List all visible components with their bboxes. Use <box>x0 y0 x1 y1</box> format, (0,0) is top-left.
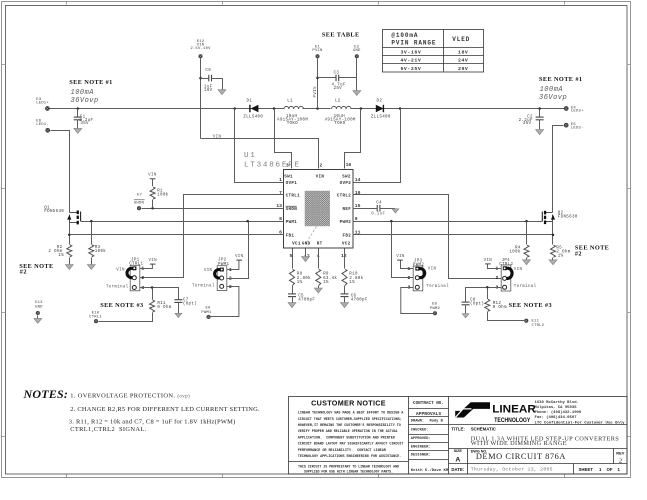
ground C4 <box>392 209 399 213</box>
svg-text:NOTES:: NOTES: <box>23 387 69 401</box>
svg-text:SHEET: SHEET <box>579 467 594 472</box>
svg-text:LED1+: LED1+ <box>36 101 49 105</box>
svg-text:TECHNOLOGY: TECHNOLOGY <box>494 417 530 424</box>
svg-text:PWM2: PWM2 <box>413 264 424 268</box>
svg-text:100k: 100k <box>157 192 168 197</box>
resistor R9 <box>316 269 338 285</box>
svg-text:PVIN: PVIN <box>314 86 318 97</box>
svg-text:C4: C4 <box>376 202 382 206</box>
terminal E13 GND <box>35 301 43 319</box>
svg-text:CTRL2: CTRL2 <box>337 194 352 199</box>
capacitor C6 <box>341 294 368 303</box>
wire Q1 source down <box>69 223 71 245</box>
svg-text:HOWEVER,IT REMAINS THE CUSTOME: HOWEVER,IT REMAINS THE CUSTOMER'S RESPON… <box>298 423 402 428</box>
U1 SHDN overline <box>286 205 297 207</box>
svg-text:OVP1: OVP1 <box>286 181 298 186</box>
svg-text:2.80k: 2.80k <box>297 276 311 281</box>
wire JP2 pin3 to E9 <box>211 287 239 317</box>
svg-text:CHECKED:: CHECKED: <box>411 429 429 433</box>
svg-text:PWM2: PWM2 <box>340 220 352 225</box>
svg-text:E7: E7 <box>137 193 143 197</box>
ground C7 <box>175 313 182 317</box>
svg-text:SHDN: SHDN <box>134 201 145 205</box>
svg-text:TECHNOLOGY APPLICATIONS ENGINE: TECHNOLOGY APPLICATIONS ENGINEERING FOR … <box>298 455 402 459</box>
diode D2 ZLLS400 <box>371 99 391 119</box>
svg-text:SEE TABLE: SEE TABLE <box>322 32 360 39</box>
svg-text:D2: D2 <box>377 99 383 103</box>
svg-text:Terminal: Terminal <box>426 284 449 289</box>
svg-text:100k: 100k <box>95 249 106 254</box>
U1 pin numbers <box>276 162 360 260</box>
svg-text:35V: 35V <box>523 122 532 126</box>
capacitor C2 <box>519 109 544 130</box>
svg-text:29V: 29V <box>458 66 468 72</box>
resistor R2 <box>48 245 71 258</box>
wire R4 to ground <box>526 258 528 260</box>
svg-text:L1: L1 <box>287 100 293 104</box>
svg-text:ZLLS400: ZLLS400 <box>371 116 391 120</box>
resistor R12 <box>485 288 507 312</box>
svg-text:E8: E8 <box>432 302 438 306</box>
svg-text:100mA: 100mA <box>71 89 95 97</box>
svg-text:PWM2: PWM2 <box>430 307 441 311</box>
svg-text:LT3486EFE: LT3486EFE <box>244 162 301 170</box>
ground E2 <box>353 91 361 96</box>
svg-text:FDN5630: FDN5630 <box>558 215 578 219</box>
svg-text:3. R11, R12 = 10k and C7, C8 =: 3. R11, R12 = 10k and C7, C8 = 1uF for 1… <box>69 419 236 426</box>
wire JP2 pin2 riser <box>227 222 249 279</box>
svg-text:36Vovp: 36Vovp <box>539 94 567 102</box>
table VLED box <box>383 30 484 73</box>
svg-text:SUPPLIED FOR USE WITH LINEAR T: SUPPLIED FOR USE WITH LINEAR TECHNOLOGY … <box>304 471 393 475</box>
svg-text:OF: OF <box>607 467 613 472</box>
wire SW2 riser <box>345 109 361 169</box>
svg-text:CUSTOMER NOTICE: CUSTOMER NOTICE <box>311 399 386 408</box>
svg-text:VIN: VIN <box>204 269 213 273</box>
ground R3 <box>87 265 95 270</box>
svg-text:1: 1 <box>279 177 282 183</box>
node junction C3 left <box>316 77 319 80</box>
transistor Q1 FDN5630 <box>44 206 80 224</box>
svg-text:REF: REF <box>343 207 352 212</box>
svg-text:PWM1: PWM1 <box>286 220 298 225</box>
terminal E10 CTRL1 <box>89 311 102 323</box>
wire E2 down <box>356 59 358 91</box>
capacitor C1 <box>74 109 94 129</box>
wire R4 from PWM2 <box>526 222 528 245</box>
svg-text:Thursday, October 13, 2005: Thursday, October 13, 2005 <box>471 467 553 473</box>
wire JP1 pin1 to VIN flag <box>140 265 153 269</box>
svg-text:CTRL2: CTRL2 <box>532 324 545 328</box>
svg-text:GND: GND <box>35 306 43 310</box>
svg-text:1%: 1% <box>297 281 303 285</box>
customer notice body <box>298 412 404 475</box>
wire FB2 <box>353 234 553 236</box>
svg-text:VERIFY PROPER AND RELIABLE OPE: VERIFY PROPER AND RELIABLE OPERATION IN … <box>298 430 399 434</box>
capacitor C7 <box>174 298 197 313</box>
resistor R10 <box>342 269 364 285</box>
wire JP3 pin1 to VIN flag <box>401 261 414 269</box>
wire RT stub <box>318 249 320 269</box>
terminal E1 PVIN <box>312 46 323 59</box>
capacitor C8 <box>462 299 485 314</box>
svg-text:SW1: SW1 <box>284 174 293 179</box>
svg-text:PVIN: PVIN <box>312 49 323 53</box>
node junction SW1-bus <box>273 107 276 110</box>
wire E6 to Q1 drain <box>51 131 70 213</box>
node junction SW2-bus <box>360 107 363 110</box>
svg-text:CTRL2: CTRL2 <box>499 263 513 267</box>
wire JP3 pin2 riser <box>392 222 414 278</box>
svg-text:@100mA: @100mA <box>391 32 418 39</box>
resistor R11 <box>150 288 172 313</box>
node junction OVP1-bus <box>233 107 236 110</box>
wire JP2 pin1 to VIN flag <box>227 261 239 270</box>
svg-text:63.4k: 63.4k <box>323 276 337 281</box>
svg-text:Terminal: Terminal <box>192 283 215 288</box>
svg-text:SEE NOTE #3: SEE NOTE #3 <box>100 302 143 309</box>
wire VIN rail to pin2 <box>201 139 319 169</box>
svg-text:JP2: JP2 <box>218 258 227 262</box>
svg-text:VIN: VIN <box>116 269 125 273</box>
svg-text:GND: GND <box>302 242 311 247</box>
svg-text:TOKO: TOKO <box>334 122 345 126</box>
node junction R12-JP4 <box>486 286 489 289</box>
svg-text:DESIGNER:: DESIGNER: <box>411 454 431 458</box>
svg-text:Milpitas, CA 95035: Milpitas, CA 95035 <box>535 405 578 410</box>
svg-text:16V: 16V <box>204 89 213 93</box>
svg-text:RT: RT <box>317 242 323 247</box>
svg-text:GND: GND <box>353 49 361 53</box>
node junction FB2-Q2 <box>552 234 555 237</box>
node junction C1-bus <box>77 107 80 110</box>
terminal E2 GND <box>353 46 361 59</box>
LT logo <box>455 404 536 424</box>
svg-text:Rudy B: Rudy B <box>430 419 444 424</box>
svg-text:LINEAR: LINEAR <box>492 404 536 416</box>
wire VC2 stub <box>344 249 346 269</box>
capacitor C4 <box>371 202 395 217</box>
ground C8 <box>462 314 469 318</box>
inductor L2 <box>325 100 356 127</box>
U1 pad dashed tie to GND <box>306 227 316 243</box>
transistor Q2 FDN5630 <box>542 211 577 224</box>
terminal E4 LED2+ <box>564 106 584 114</box>
U1 pin names left <box>286 181 301 238</box>
power flag VIN JP2 <box>235 255 244 260</box>
wire R5 to ground <box>552 258 554 260</box>
svg-text:VIN: VIN <box>148 259 157 263</box>
svg-text:Keith S./Dave KM: Keith S./Dave KM <box>411 468 449 473</box>
wire E5 to Q2 drain <box>553 126 564 213</box>
wire OVP1 riser <box>235 109 284 183</box>
svg-text:CIRCUIT THAT MEETS CUSTOMER-SU: CIRCUIT THAT MEETS CUSTOMER-SUPPLIED SPE… <box>298 418 402 422</box>
wire R11 to E10 <box>99 313 153 322</box>
svg-text:36Vovp: 36Vovp <box>71 97 99 105</box>
svg-text:24V: 24V <box>458 58 468 64</box>
terminal E3 LED1+ <box>36 98 50 111</box>
svg-text:VIN: VIN <box>316 174 325 179</box>
power flag VIN R1 <box>148 173 157 178</box>
ground C6 <box>341 303 349 308</box>
svg-text:1: 1 <box>618 467 621 472</box>
svg-text:C9: C9 <box>205 69 211 73</box>
svg-text:PERFORMANCE OR RELIABILITY. C: PERFORMANCE OR RELIABILITY. CONTACT LINE… <box>298 449 387 453</box>
svg-text:0 Ohm: 0 Ohm <box>493 305 507 310</box>
ground R2 <box>65 265 73 270</box>
table text <box>391 32 470 72</box>
ground R9 <box>314 288 322 293</box>
wire JP3 pin3 to E8 <box>401 288 433 314</box>
svg-text:E10: E10 <box>92 311 100 315</box>
svg-text:2: 2 <box>320 163 323 169</box>
svg-text:SEE NOTE #1: SEE NOTE #1 <box>539 76 582 83</box>
ground C9 <box>218 90 226 95</box>
resistor R5 <box>551 245 571 258</box>
svg-text:1630 McCarthy Blvd.: 1630 McCarthy Blvd. <box>535 400 579 405</box>
node junction JP2-PWM1 <box>246 220 249 223</box>
jumper JP4 CTRL2 <box>495 259 536 291</box>
diode D1 ZLLS400 <box>243 99 263 119</box>
wire R9 to ground <box>318 286 320 289</box>
svg-text:DATE:: DATE: <box>451 467 464 472</box>
svg-text:D1: D1 <box>247 99 253 103</box>
svg-text:VIN: VIN <box>396 255 405 259</box>
ground C1 <box>74 128 82 133</box>
U1 pin names top <box>284 174 351 179</box>
svg-text:SCHEMATIC: SCHEMATIC <box>471 427 496 432</box>
wire JP1 pin3 <box>140 288 179 300</box>
svg-text:(Opt): (Opt) <box>183 301 197 306</box>
svg-text:VIN: VIN <box>514 268 523 272</box>
node junction C2-bus <box>538 107 541 110</box>
wire E1 to bus <box>317 59 319 109</box>
svg-text:DEMO CIRCUIT 876A: DEMO CIRCUIT 876A <box>476 452 566 461</box>
svg-text:SEE NOTE #1: SEE NOTE #1 <box>69 79 112 86</box>
node junction R4-PWM2 <box>525 220 528 223</box>
svg-text:E11: E11 <box>532 320 540 324</box>
wire GND pin stub <box>305 249 307 257</box>
wire VC1 stub <box>292 249 294 269</box>
svg-text:2.5V-10V: 2.5V-10V <box>190 47 211 51</box>
svg-text:Phone: (408)432-1900: Phone: (408)432-1900 <box>535 410 582 415</box>
svg-text:APPROVALS: APPROVALS <box>416 411 442 417</box>
wire REF to C4 <box>353 208 377 210</box>
svg-text:100mA: 100mA <box>540 86 564 94</box>
LTC address block <box>535 400 626 426</box>
svg-text:35V: 35V <box>80 122 89 126</box>
svg-text:#2: #2 <box>575 250 582 257</box>
node junction FB1-Q1 <box>68 233 71 236</box>
jumper JP3 PWM2 <box>407 259 449 290</box>
ground U1 GND <box>302 257 310 262</box>
svg-text:1%: 1% <box>323 281 329 285</box>
svg-text:CIRCUIT BOARD LAYOUT MAY SIGNI: CIRCUIT BOARD LAYOUT MAY SIGNIFICANTLY A… <box>298 443 404 447</box>
U1 pin names right <box>337 181 352 238</box>
wire Q2 source down <box>552 222 554 245</box>
svg-text:2: 2 <box>495 275 498 281</box>
svg-text:14: 14 <box>355 177 361 183</box>
wire PWM1 <box>81 221 284 223</box>
wire R12 to E11 <box>488 312 525 321</box>
wire E12 to VIN rail <box>200 59 202 139</box>
svg-text:18V: 18V <box>458 49 468 55</box>
svg-text:4700pF: 4700pF <box>298 299 315 303</box>
svg-text:VIN: VIN <box>148 173 157 177</box>
title block outline <box>289 397 628 475</box>
ground C2 <box>536 130 544 135</box>
svg-text:E13: E13 <box>35 301 43 305</box>
svg-text:1. OVERVOLTAGE PROTECTION. (ov: 1. OVERVOLTAGE PROTECTION. (ovp) <box>70 392 190 399</box>
svg-text:1: 1 <box>599 467 602 472</box>
jumper JP2 PWM1 <box>192 258 232 290</box>
svg-text:Fax: (408)434-0507: Fax: (408)434-0507 <box>535 415 578 420</box>
svg-text:OVP2: OVP2 <box>340 181 352 186</box>
power flag VIN JP4 <box>484 259 493 264</box>
svg-text:PWM1: PWM1 <box>201 311 212 315</box>
ground C5 <box>288 303 296 308</box>
wire SHDN <box>142 208 284 210</box>
svg-text:C3: C3 <box>334 72 340 76</box>
svg-text:FB2: FB2 <box>343 233 352 238</box>
resistor R1 <box>150 179 169 209</box>
svg-text:SW2: SW2 <box>342 174 351 179</box>
svg-text:FDN5630: FDN5630 <box>44 210 64 214</box>
node junction OVP2-bus <box>399 107 402 110</box>
svg-text:SHDN: SHDN <box>286 207 298 212</box>
wire R3 to ground <box>91 258 93 265</box>
terminal E7 SHDN <box>134 193 145 210</box>
inductor L1 <box>277 100 308 127</box>
wire PWM2 <box>353 221 543 223</box>
svg-text:LINEAR TECHNOLOGY HAS MADE A B: LINEAR TECHNOLOGY HAS MADE A BEST EFFORT… <box>298 412 404 416</box>
svg-text:16: 16 <box>346 162 352 168</box>
svg-text:CTRL1: CTRL1 <box>286 194 301 199</box>
svg-text:FB1: FB1 <box>286 233 295 238</box>
wire JP4 pin3 <box>466 288 502 303</box>
svg-text:VIN: VIN <box>484 259 493 263</box>
svg-text:3: 3 <box>286 163 289 169</box>
svg-text:PVIN RANGE: PVIN RANGE <box>391 39 436 46</box>
op-amp U1 LT3486EFE body <box>244 152 353 248</box>
svg-text:VC1: VC1 <box>292 242 301 247</box>
svg-text:0 Ohm: 0 Ohm <box>157 305 171 310</box>
capacitor C5 <box>288 294 315 303</box>
svg-text:ZLLS400: ZLLS400 <box>243 116 263 120</box>
wire CTRL2 <box>353 195 502 279</box>
wire R3 from PWM1 <box>91 222 93 245</box>
svg-text:LED1-: LED1- <box>36 123 49 127</box>
svg-text:DRAWN:: DRAWN: <box>411 420 424 424</box>
svg-text:SIZE: SIZE <box>454 449 463 453</box>
svg-text:Terminal: Terminal <box>514 284 537 289</box>
svg-text:A: A <box>455 457 460 464</box>
wire R8 to C5 <box>292 286 294 294</box>
svg-text:VIN: VIN <box>213 135 222 139</box>
svg-text:5V-25V: 5V-25V <box>400 66 421 72</box>
node junction R11-JP1 <box>151 286 154 289</box>
resistor R4 <box>509 245 529 257</box>
capacitor C9 <box>201 69 223 93</box>
wire SW1 riser <box>275 109 292 169</box>
svg-text:CTRL1: CTRL1 <box>89 316 102 320</box>
U1 exposed pad crosshatch <box>305 191 330 226</box>
wire R2 to ground <box>69 258 71 265</box>
svg-text:CTRL1,CTRL2 SIGNAL.: CTRL1,CTRL2 SIGNAL. <box>70 426 146 433</box>
power flag VIN JP3 <box>396 255 405 260</box>
svg-text:0.1uF: 0.1uF <box>371 213 385 217</box>
U1 pin names bottom <box>292 242 351 247</box>
approvals column <box>413 401 444 417</box>
svg-text:LED2+: LED2+ <box>571 110 584 114</box>
jumper JP1 CTRL1 <box>106 258 145 290</box>
svg-text:PWM1: PWM1 <box>218 263 229 267</box>
svg-text:LTC Confidential-For Customer: LTC Confidential-For Customer Use Only <box>535 420 626 425</box>
wire main LED bus <box>48 108 567 110</box>
power flag VIN JP1 <box>148 259 157 264</box>
capacitor C3 <box>318 72 357 91</box>
svg-text:3V-16V: 3V-16V <box>400 49 421 55</box>
wire OVP2 riser <box>353 109 401 183</box>
resistor R3 <box>89 245 106 257</box>
svg-text:12: 12 <box>341 253 347 259</box>
svg-text:1%: 1% <box>349 281 355 285</box>
svg-text:TITLE:: TITLE: <box>451 427 465 432</box>
svg-text:1%: 1% <box>58 254 64 258</box>
svg-text:THIS CIRCUIT IS PROPRIETARY TO: THIS CIRCUIT IS PROPRIETARY TO LINEAR TE… <box>298 466 400 470</box>
wire CTRL1 <box>140 195 284 278</box>
svg-text:CONTRACT NO.: CONTRACT NO. <box>413 401 444 406</box>
svg-text:VLED: VLED <box>452 36 470 43</box>
wire FB1 <box>70 234 284 236</box>
terminal E11 CTRL2 <box>524 319 544 328</box>
svg-text:VIN: VIN <box>428 267 437 271</box>
resistor R8 <box>290 269 312 285</box>
terminal E5 LED2- <box>564 123 584 131</box>
node junction R1-SHDN <box>151 207 154 210</box>
svg-text:APPROVED:: APPROVED: <box>411 437 431 441</box>
svg-text:VC2: VC2 <box>342 242 351 247</box>
svg-text:APPLICATION. COMPONENT SUBSTI: APPLICATION. COMPONENT SUBSTITUTION AND … <box>298 436 396 440</box>
svg-text:E9: E9 <box>205 307 211 311</box>
terminal E8 PWM2 <box>430 302 441 315</box>
wire JP4 pin1 to VIN flag <box>488 264 502 269</box>
svg-text:4V-21V: 4V-21V <box>400 58 421 64</box>
terminal E6 LED1- <box>36 119 50 132</box>
svg-text:25V: 25V <box>334 87 343 91</box>
svg-text:VIN: VIN <box>235 255 244 259</box>
svg-text:ENGINEER:: ENGINEER: <box>411 446 431 450</box>
svg-text:#2: #2 <box>20 269 27 276</box>
wire R10 to C6 <box>344 286 346 294</box>
svg-text:L2: L2 <box>335 100 341 104</box>
svg-text:WITH WIDE DIMMING RANGE: WITH WIDE DIMMING RANGE <box>471 440 567 447</box>
terminal E12 VIN <box>190 40 211 58</box>
node junction R3-PWM1 <box>90 220 93 223</box>
svg-text:2: 2 <box>619 457 622 464</box>
svg-text:Terminal: Terminal <box>106 284 129 289</box>
node junction JP3-PWM2 <box>390 220 393 223</box>
ground R4 <box>523 260 531 265</box>
terminal E9 PWM1 <box>201 307 212 319</box>
svg-text:2: 2 <box>141 275 144 281</box>
svg-text:TOKO: TOKO <box>287 122 298 126</box>
svg-text:(Opt): (Opt) <box>470 302 484 307</box>
svg-text:1%: 1% <box>558 254 564 258</box>
svg-text:4700pF: 4700pF <box>351 299 368 303</box>
svg-text:2.80k: 2.80k <box>349 276 363 281</box>
svg-text:LED2-: LED2- <box>571 126 584 130</box>
